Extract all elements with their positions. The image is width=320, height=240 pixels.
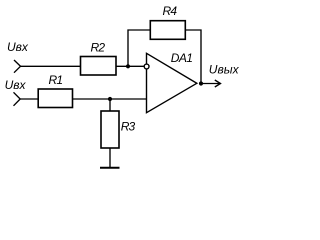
wire junction up to feedback left leg: [128, 30, 150, 66]
svg-text:R4: R4: [163, 4, 178, 18]
svg-text:R2: R2: [91, 41, 106, 55]
input terminal 2 chevron: [14, 92, 21, 106]
junction node R3 tap: [108, 97, 112, 101]
wire R4 to output node right leg: [185, 30, 201, 84]
inverting input bubble: [144, 64, 149, 69]
wire output: [201, 83, 221, 85]
ground: [100, 167, 120, 169]
svg-text:Uвых: Uвых: [209, 63, 240, 77]
resistor R2: [81, 57, 117, 76]
svg-text:DA1: DA1: [171, 51, 193, 65]
input terminal 1 chevron: [14, 60, 21, 73]
resistor R3: [101, 111, 119, 148]
wire input2 to R1: [20, 98, 38, 100]
op-amp DA1: [147, 53, 197, 112]
svg-text:R3: R3: [121, 120, 136, 134]
output arrowhead: [215, 80, 221, 87]
wire R2 to inverting input: [116, 65, 144, 67]
resistor R4: [150, 21, 185, 40]
wire input1 to R2: [21, 65, 81, 67]
wire R1 to noninverting input: [73, 98, 147, 100]
wire junction down to R3: [109, 99, 111, 111]
junction node feedback tap: [126, 64, 130, 68]
wire R3 to ground: [109, 148, 111, 168]
svg-text:R1: R1: [49, 73, 63, 87]
output node junction: [199, 81, 203, 85]
svg-text:Uвх: Uвх: [7, 40, 29, 54]
svg-text:Uвх: Uвх: [5, 78, 27, 92]
resistor R1: [38, 89, 72, 108]
